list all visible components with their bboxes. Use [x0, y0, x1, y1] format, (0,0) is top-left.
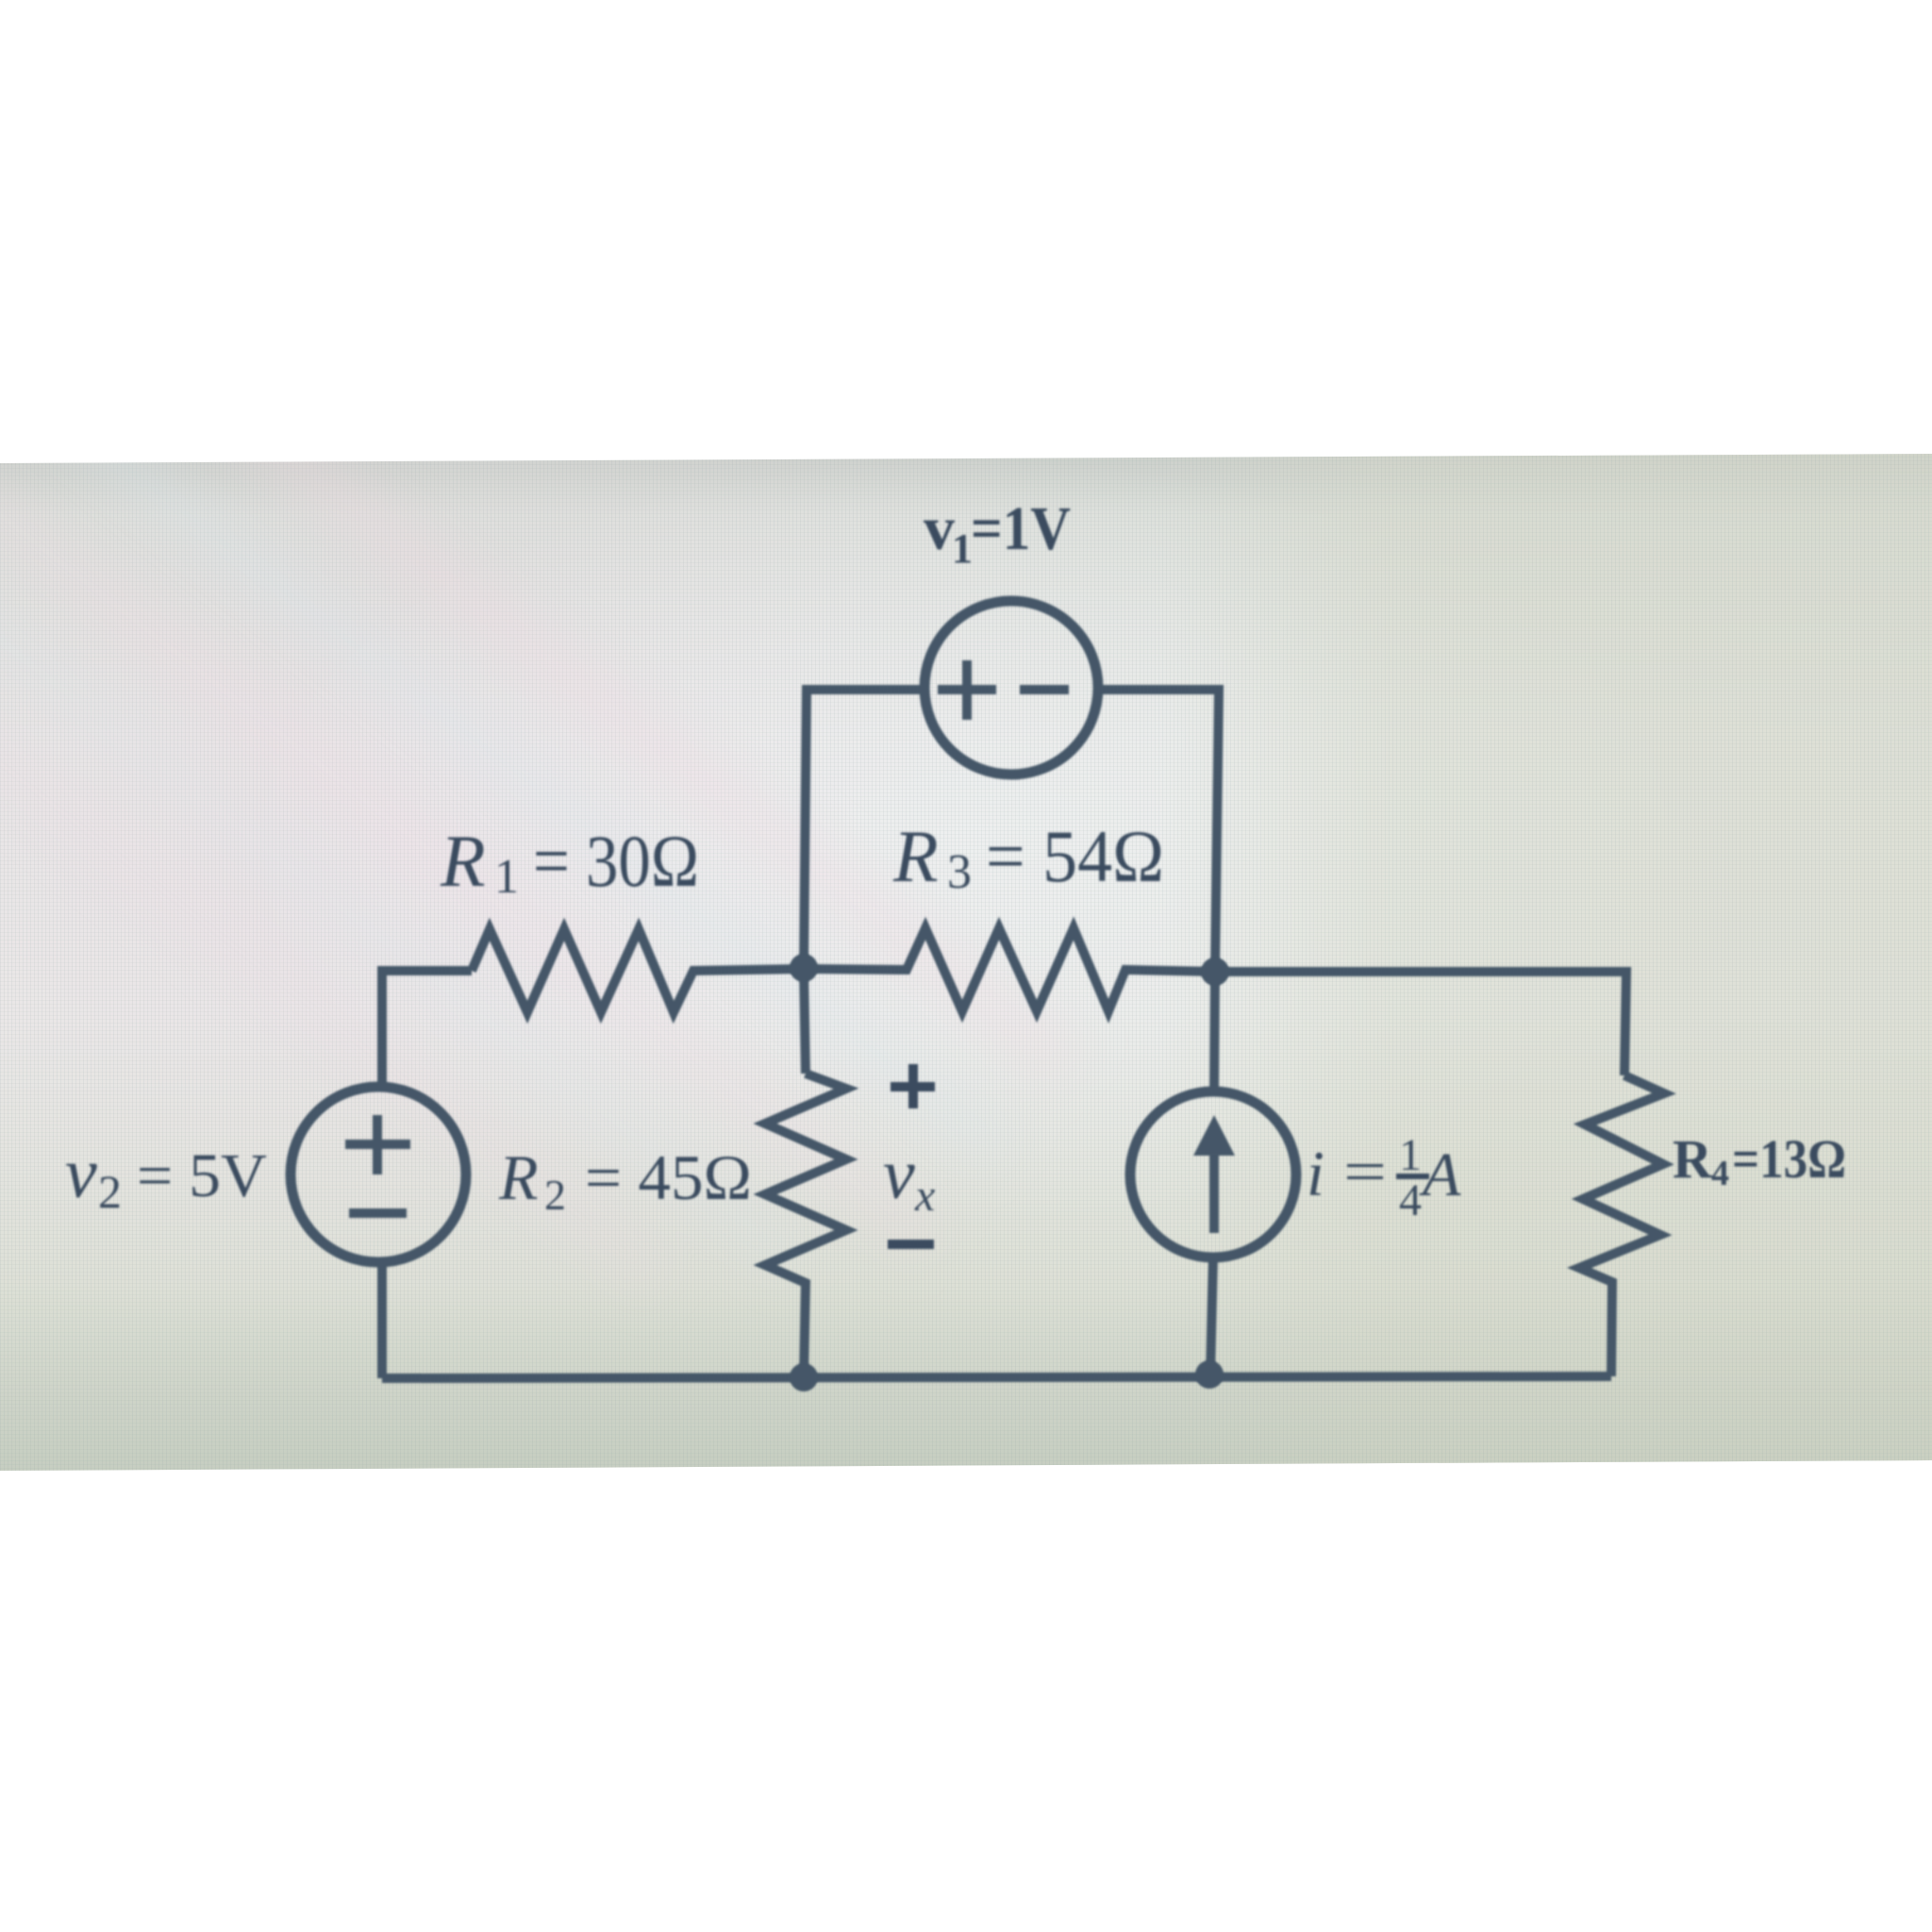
svg-text:2: 2 [98, 1165, 122, 1218]
svg-text:= 54Ω: = 54Ω [986, 815, 1164, 897]
fraction bar of 1/4 [1396, 1174, 1429, 1179]
svg-text:v: v [65, 1134, 97, 1213]
svg-text:v: v [883, 1135, 915, 1214]
svg-text:1: 1 [1399, 1130, 1422, 1180]
voltage source v2 [291, 1087, 466, 1262]
minus sign of vx [888, 1240, 934, 1249]
svg-text:=: = [1343, 1138, 1387, 1205]
voltage source V1 [924, 601, 1098, 774]
wire: current source bottom to bottom rail [1210, 1257, 1213, 1374]
wire: v2 bottom to bottom-left corner [377, 1263, 387, 1378]
resistor R4 [1579, 1075, 1664, 1376]
wire: left loop top lead [382, 971, 472, 1086]
minus of v2 [349, 1208, 407, 1218]
plus of v2 [345, 1140, 410, 1149]
resistor R3 [804, 928, 1215, 1011]
svg-text:x: x [914, 1171, 935, 1221]
wire: node B to top-right corner [1215, 972, 1626, 1075]
photo of screen background [0, 454, 1932, 1471]
current source I [1130, 1091, 1296, 1257]
svg-text:R: R [1673, 1128, 1713, 1190]
svg-text:R: R [440, 820, 486, 902]
wire: left vertical to v2 [377, 971, 387, 1086]
svg-text:1: 1 [952, 525, 973, 572]
svg-text:=1V: =1V [971, 494, 1071, 563]
svg-text:4: 4 [1711, 1154, 1729, 1193]
svg-text:i: i [1307, 1138, 1324, 1209]
svg-text:R: R [498, 1141, 539, 1213]
wire: node B down to current source [1214, 972, 1215, 1091]
svg-text:= 5V: = 5V [137, 1141, 267, 1210]
node bottom-center [790, 1363, 818, 1391]
svg-text:2: 2 [544, 1171, 566, 1219]
minus of V1 [1020, 685, 1069, 694]
arrowhead of current source [1193, 1115, 1235, 1156]
resistor R2 [765, 1074, 846, 1377]
svg-text:= 45Ω: = 45Ω [585, 1141, 752, 1213]
node B [1201, 958, 1229, 986]
plus of V1 [938, 685, 996, 694]
node A [790, 954, 818, 982]
svg-text:v: v [924, 494, 955, 563]
wire: node A down to R2 [804, 969, 806, 1074]
resistor R1 [472, 929, 804, 1012]
wire: v1 right terminal down to node B [1098, 690, 1219, 972]
svg-text:= 30Ω: = 30Ω [533, 820, 699, 902]
svg-text:1: 1 [494, 850, 519, 904]
wire: bottom rail [382, 1376, 1611, 1378]
svg-text:=13Ω: =13Ω [1732, 1128, 1846, 1190]
soft moire streaks in upper-left of photo [0, 171, 1085, 1413]
svg-text:R: R [892, 815, 939, 897]
node bottom-right [1195, 1360, 1224, 1389]
plus sign of vx [891, 1082, 935, 1091]
wire: node A up and to v1 left terminal [804, 690, 924, 969]
svg-text:4: 4 [1399, 1175, 1422, 1225]
arrow shaft of current source [1209, 1153, 1219, 1233]
svg-text:3: 3 [947, 845, 972, 899]
